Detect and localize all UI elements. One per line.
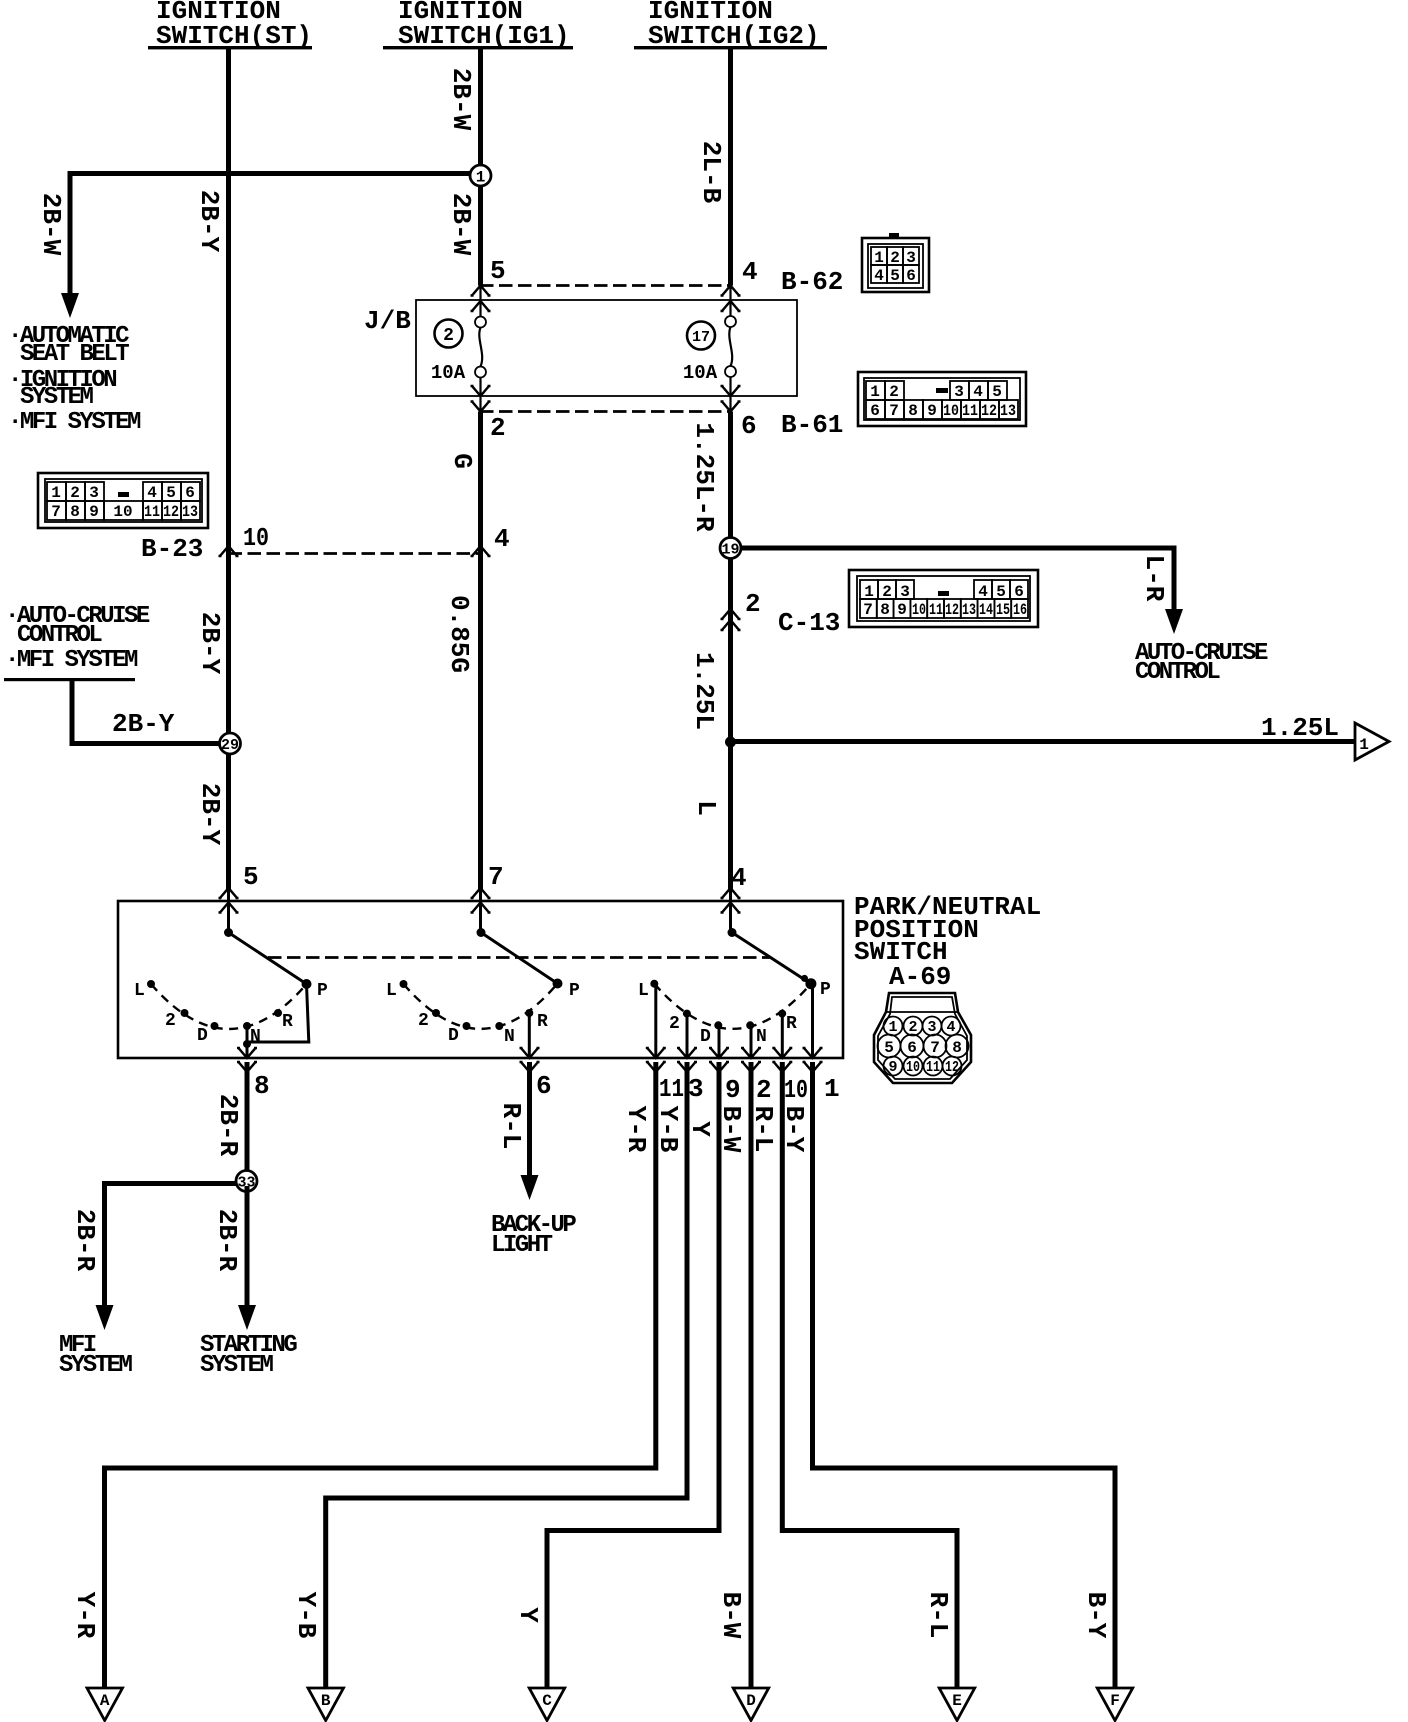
svg-text:3: 3 (906, 249, 916, 267)
connector pins chevrons pin9 at switch box bottom (709, 1048, 729, 1058)
svg-text:B-62: B-62 (781, 267, 843, 297)
switch IG1 contact dots L 2 D N R P (400, 979, 563, 1031)
svg-text:Y-R: Y-R (70, 1592, 100, 1639)
svg-text:3: 3 (89, 484, 99, 502)
svg-text:7: 7 (863, 601, 873, 619)
svg-text:7: 7 (488, 862, 504, 892)
switch IG1 contact arc dashed (404, 984, 558, 1029)
switch IG2 P output wire (811, 984, 814, 1058)
connector icon B-23 (38, 473, 208, 528)
fuse 2 element (475, 317, 486, 397)
destination text back-up light (491, 1212, 576, 1259)
svg-text:A-69: A-69 (889, 962, 951, 992)
connector icon C-13 (849, 570, 1038, 627)
connector pins chevrons IG1 at switch box top (471, 888, 491, 898)
svg-text:3: 3 (927, 1019, 936, 1036)
arrow to auto-cruise control (1165, 609, 1183, 634)
svg-text:6: 6 (1014, 583, 1024, 601)
svg-text:5: 5 (996, 583, 1006, 601)
connector pins chevrons ST at switch box top (219, 888, 239, 898)
svg-text:L: L (638, 981, 649, 1001)
harness connector C triangle (529, 1688, 565, 1721)
svg-text:6: 6 (870, 402, 880, 420)
svg-text:10: 10 (784, 1075, 808, 1105)
svg-text:SYSTEM: SYSTEM (59, 1352, 133, 1379)
svg-text:1: 1 (864, 583, 874, 601)
switch ST N output wire (246, 1026, 249, 1058)
svg-text:Y: Y (513, 1607, 543, 1623)
svg-text:D: D (746, 1692, 756, 1710)
wire B-W pin 2 run to D (749, 1062, 754, 1690)
harness connector A triangle (87, 1688, 123, 1721)
svg-text:9: 9 (725, 1075, 741, 1105)
svg-text:10: 10 (912, 601, 926, 619)
svg-text:2B-Y: 2B-Y (194, 190, 224, 253)
svg-text:L: L (691, 800, 721, 816)
svg-text:5: 5 (490, 256, 506, 286)
wire 2B-W branch vertical drop (68, 171, 73, 295)
connector pin chevron ST at B-23 (219, 546, 239, 556)
svg-text:2: 2 (418, 1011, 429, 1031)
wire IG2 trunk vertical lower (729, 396, 731, 412)
svg-text:4: 4 (494, 524, 510, 554)
svg-text:4: 4 (147, 484, 157, 502)
svg-text:1.25L-R: 1.25L-R (689, 422, 719, 532)
switch ST contact dots L 2 D N R P (147, 979, 312, 1030)
connector pins chevrons IG2 at C-13 (721, 609, 741, 619)
svg-text:10A: 10A (683, 362, 718, 384)
svg-text:B-Y: B-Y (1081, 1592, 1111, 1639)
svg-text:11: 11 (926, 1059, 940, 1076)
svg-text:16: 16 (1013, 601, 1027, 619)
svg-text:R: R (282, 1012, 293, 1032)
svg-text:L: L (134, 981, 145, 1001)
svg-text:6: 6 (907, 1039, 917, 1057)
svg-text:R: R (537, 1012, 548, 1032)
switch IG2 L output wire (654, 984, 657, 1058)
svg-text:5: 5 (243, 862, 259, 892)
connector pin chevron IG1 at B-23 (471, 546, 491, 556)
svg-text:10: 10 (243, 523, 269, 553)
wire Y-B pin 3 run to B (326, 1062, 687, 1690)
dashed link line between switch arms (268, 956, 770, 959)
connector pins chevrons pin2 at switch box bottom (741, 1048, 761, 1058)
svg-text:3: 3 (900, 583, 910, 601)
svg-text:P: P (569, 981, 580, 1001)
svg-text:E: E (952, 1692, 962, 1710)
svg-text:13: 13 (962, 601, 976, 619)
svg-text:10A: 10A (431, 362, 466, 384)
svg-text:7: 7 (930, 1039, 940, 1057)
park/neutral position switch box (118, 901, 843, 1058)
node 19 splice circle on IG2 (720, 538, 741, 559)
svg-text:6: 6 (185, 484, 195, 502)
connector pins chevrons IG1 at B-62 and J/B top (471, 286, 491, 296)
svg-text:1: 1 (874, 249, 884, 267)
switch ST pivot dot (224, 928, 233, 937)
switch IG2 R output wire (781, 1014, 784, 1058)
wire from auto-cruise block to node 29 (72, 681, 222, 744)
svg-text:·MFI SYSTEM: ·MFI SYSTEM (8, 409, 141, 436)
destination text auto-cruise control / MFI system (4, 603, 150, 681)
svg-text:C-13: C-13 (778, 608, 840, 638)
svg-text:N: N (504, 1027, 515, 1047)
svg-text:J/B: J/B (364, 306, 411, 336)
svg-text:8: 8 (952, 1039, 962, 1057)
switch IG2 contact arc dashed (654, 984, 811, 1029)
svg-text:F: F (1110, 1692, 1120, 1710)
connector pins chevrons pin6 at switch box bottom (520, 1048, 540, 1058)
arrow to back-up light (521, 1175, 539, 1200)
wire IG1 trunk vertical lower (479, 396, 481, 412)
wire IG1 trunk vertical upper (478, 48, 483, 286)
svg-text:2: 2 (70, 484, 80, 502)
svg-text:12: 12 (945, 601, 959, 619)
svg-text:9: 9 (927, 402, 937, 420)
svg-text:1: 1 (476, 169, 486, 187)
svg-text:B-61: B-61 (781, 410, 843, 440)
svg-text:9: 9 (89, 503, 99, 521)
svg-text:1: 1 (888, 1019, 897, 1036)
connector icon B-62 (862, 233, 929, 292)
svg-text:2B-R: 2B-R (213, 1094, 243, 1157)
svg-text:P: P (820, 980, 831, 1000)
wire IG2 trunk vertical upper (728, 48, 733, 286)
destination text MFI system (59, 1332, 133, 1379)
svg-text:B-23: B-23 (141, 534, 203, 564)
svg-text:G: G (447, 453, 477, 469)
connector pins chevrons IG2 at B-62 and J/B top (721, 286, 741, 296)
switch ST arm to P (229, 933, 307, 985)
svg-text:5: 5 (166, 484, 176, 502)
svg-text:B-W: B-W (716, 1592, 746, 1639)
svg-text:A: A (100, 1692, 110, 1710)
svg-text:13: 13 (182, 503, 198, 521)
connector pins chevrons pin3 at switch box bottom (677, 1048, 697, 1058)
svg-text:10: 10 (906, 1059, 920, 1076)
svg-text:2: 2 (756, 1075, 772, 1105)
svg-text:P: P (317, 981, 328, 1001)
switch IG2 contact dots L 2 D N R P (650, 978, 816, 1029)
fuse 17 circle (687, 322, 715, 350)
svg-text:8: 8 (880, 601, 890, 619)
dashed connector line B-62 (480, 284, 730, 287)
svg-text:6: 6 (741, 411, 757, 441)
wire B-Y pin 1 run to F (813, 1062, 1116, 1690)
switch IG2 2 output wire (686, 1014, 689, 1058)
svg-text:8: 8 (254, 1071, 270, 1101)
svg-text:2: 2 (745, 589, 761, 619)
connector pins chevrons pin10 at switch box bottom (772, 1048, 792, 1058)
svg-text:3: 3 (688, 1074, 704, 1104)
svg-text:9: 9 (897, 601, 907, 619)
svg-text:CONTROL: CONTROL (1135, 659, 1220, 686)
wire R-L pin 10 run to E (782, 1062, 957, 1690)
svg-text:N: N (756, 1027, 767, 1047)
destination text starting system (200, 1332, 297, 1379)
svg-text:2B-W: 2B-W (446, 193, 476, 256)
switch IG2 D output wire (718, 1025, 721, 1058)
svg-text:11: 11 (929, 601, 943, 619)
harness connector D triangle (733, 1688, 769, 1721)
svg-text:19: 19 (721, 542, 739, 559)
switch ST link P to N wire (247, 984, 309, 1042)
svg-text:C: C (542, 1692, 552, 1710)
svg-text:12: 12 (981, 402, 997, 420)
wire L-R from node 19 to auto-cruise control (741, 548, 1174, 612)
label PARK/NEUTRAL POSITION SWITCH (854, 892, 1041, 992)
svg-text:9: 9 (888, 1059, 897, 1076)
connector pins chevrons IG2 at J/B bottom and B-61 (721, 386, 741, 396)
svg-text:4: 4 (946, 1019, 955, 1036)
connector pins chevrons pin8 at switch box bottom (237, 1048, 257, 1058)
svg-text:SYSTEM: SYSTEM (20, 384, 94, 411)
svg-text:R-L: R-L (496, 1103, 526, 1150)
destination text auto-cruise control right (1135, 640, 1268, 686)
svg-text:5: 5 (992, 383, 1002, 401)
wire 2B-R pin 8 to node 33 (245, 1062, 250, 1176)
svg-text:4: 4 (731, 863, 747, 893)
switch IG2 contact labels (638, 980, 831, 1047)
node IGNITION SWITCH (ST) feed label (148, 0, 312, 51)
arrow to starting system (238, 1305, 256, 1330)
connector pins chevrons IG2 at switch box top (721, 888, 741, 898)
svg-text:Y-R: Y-R (621, 1106, 651, 1153)
svg-text:1.25L: 1.25L (1261, 713, 1339, 743)
switch ST contact labels (134, 981, 328, 1047)
svg-text:·MFI SYSTEM: ·MFI SYSTEM (5, 647, 138, 674)
svg-text:1.25L: 1.25L (689, 652, 719, 730)
svg-text:17: 17 (692, 329, 710, 346)
connector pins chevrons IG1 at J/B bottom and B-61 (471, 386, 491, 396)
svg-text:2: 2 (669, 1014, 680, 1034)
svg-text:2: 2 (443, 326, 454, 346)
svg-text:4: 4 (874, 267, 884, 285)
svg-text:2: 2 (882, 583, 892, 601)
svg-text:2B-Y: 2B-Y (195, 783, 225, 846)
junction block J/B box (416, 300, 797, 396)
svg-text:2: 2 (165, 1011, 176, 1031)
connector pins chevrons pin1 at switch box bottom (803, 1048, 823, 1058)
switch IG1 arm to P (481, 933, 558, 984)
wire R-L pin 6 to back-up light (527, 1062, 532, 1177)
destination text automatic seat belt / ignition system / MFI system (8, 323, 141, 436)
svg-text:R: R (786, 1014, 797, 1034)
svg-text:L-R: L-R (1139, 555, 1169, 602)
svg-text:11: 11 (144, 503, 160, 521)
wire 2B-R branch to MFI system (105, 1184, 237, 1308)
svg-text:B: B (321, 1692, 331, 1710)
svg-text:2B-W: 2B-W (36, 193, 66, 256)
node 29 splice circle (220, 733, 241, 754)
dashed connector line B-23 (229, 552, 481, 555)
switch IG2 N output wire (750, 1025, 753, 1058)
harness connector B triangle (308, 1688, 344, 1721)
svg-text:11: 11 (962, 402, 978, 420)
svg-text:8: 8 (908, 402, 918, 420)
svg-text:0.85G: 0.85G (444, 595, 474, 673)
wire 2B-W branch horizontal to node 1 (70, 171, 480, 176)
node IGNITION SWITCH (IG1) feed label (383, 0, 573, 51)
svg-text:8: 8 (70, 503, 80, 521)
wire 2B-R to starting system (245, 1186, 250, 1307)
svg-text:2: 2 (490, 413, 506, 443)
arrow to MFI system (96, 1305, 114, 1330)
svg-text:1: 1 (870, 383, 880, 401)
svg-text:10: 10 (943, 402, 959, 420)
node IGNITION SWITCH (IG2) feed label (634, 0, 827, 51)
svg-text:6: 6 (906, 267, 916, 285)
fuse 2 circle (435, 320, 463, 348)
wire 1.25L to harness arrow 1 (731, 739, 1356, 744)
svg-text:2B-R: 2B-R (212, 1209, 242, 1272)
harness connector E triangle (939, 1688, 975, 1721)
svg-text:SEAT BELT: SEAT BELT (20, 341, 129, 368)
svg-text:D: D (197, 1026, 208, 1046)
fuse 17 element (725, 316, 736, 396)
harness connector F triangle (1097, 1688, 1133, 1721)
node 33 splice circle (236, 1171, 257, 1192)
svg-text:D: D (448, 1026, 459, 1046)
svg-text:12: 12 (945, 1059, 959, 1076)
switch IG2 pivot dot (728, 928, 737, 937)
svg-text:SYSTEM: SYSTEM (200, 1352, 274, 1379)
wire Y pin 9 run to C (547, 1062, 719, 1690)
switch IG2 arm to P (732, 933, 811, 984)
switch ST junction dot on N wire (243, 1040, 251, 1048)
switch ST contact arc dashed (151, 984, 307, 1029)
svg-text:2: 2 (908, 1019, 917, 1036)
svg-text:4: 4 (742, 257, 758, 287)
svg-text:2: 2 (889, 383, 899, 401)
connector icon B-61 (858, 372, 1026, 426)
switch IG1 contact labels (386, 981, 580, 1047)
svg-text:2B-Y: 2B-Y (195, 612, 225, 675)
svg-text:2: 2 (890, 249, 900, 267)
switch IG2 arm dot (801, 975, 808, 982)
svg-text:5: 5 (890, 267, 900, 285)
svg-text:3: 3 (954, 383, 964, 401)
svg-text:CONTROL: CONTROL (17, 622, 102, 649)
svg-text:LIGHT: LIGHT (491, 1232, 553, 1259)
svg-text:N: N (250, 1027, 261, 1047)
connector icon A-69 (874, 993, 971, 1083)
svg-text:L: L (386, 981, 397, 1001)
svg-text:6: 6 (536, 1071, 552, 1101)
connector pins chevrons pin11 at switch box bottom (646, 1048, 666, 1058)
svg-text:1: 1 (1359, 736, 1369, 754)
svg-text:7: 7 (51, 503, 61, 521)
svg-text:7: 7 (889, 402, 899, 420)
svg-text:4: 4 (973, 383, 983, 401)
svg-text:1: 1 (824, 1074, 840, 1104)
svg-text:5: 5 (884, 1039, 894, 1057)
svg-text:D: D (700, 1027, 711, 1047)
svg-text:1: 1 (51, 484, 61, 502)
svg-text:10: 10 (113, 503, 132, 521)
svg-text:11: 11 (659, 1074, 684, 1104)
svg-text:29: 29 (221, 737, 239, 754)
harness arrow 1 open triangle (1355, 723, 1389, 760)
svg-text:14: 14 (979, 601, 993, 619)
wire ST trunk 2B-Y vertical (226, 48, 231, 889)
svg-text:4: 4 (978, 583, 988, 601)
svg-text:2B-R: 2B-R (70, 1209, 100, 1272)
svg-text:12: 12 (163, 503, 179, 521)
node 1 splice circle (470, 165, 491, 187)
arrow to automatic seat belt (61, 293, 79, 318)
dashed connector line B-61 (480, 410, 730, 413)
wire Y-R pin 11 run to A (105, 1062, 656, 1690)
svg-text:Y-B: Y-B (291, 1592, 321, 1639)
svg-text:R-L: R-L (923, 1592, 953, 1639)
svg-text:2L-B: 2L-B (696, 141, 726, 204)
svg-text:15: 15 (996, 601, 1010, 619)
svg-text:13: 13 (1000, 402, 1016, 420)
svg-text:2B-Y: 2B-Y (112, 709, 175, 739)
switch IG1 pivot dot (477, 928, 486, 937)
switch IG1 R output wire (528, 1013, 531, 1058)
svg-text:2B-W: 2B-W (446, 68, 476, 131)
junction dot on IG2 (725, 737, 736, 748)
